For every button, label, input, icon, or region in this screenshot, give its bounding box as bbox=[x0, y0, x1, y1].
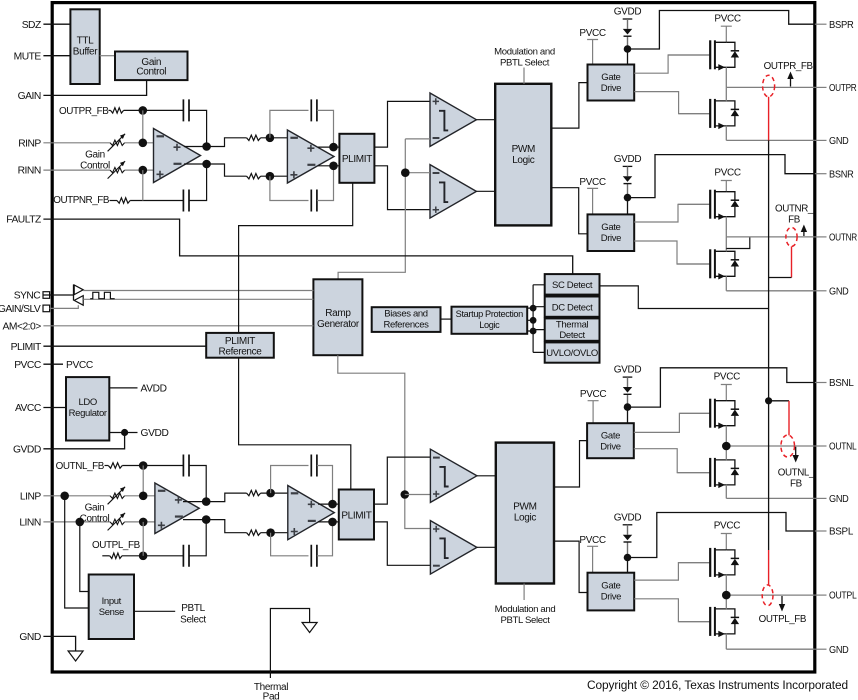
wire U3 out+ to stage2 bbox=[206, 493, 246, 502]
arrow OUTNR_FB bbox=[803, 229, 805, 236]
wire gate drive 1 high output bbox=[634, 55, 710, 73]
capacitor L-channel stage1 top feedback bbox=[183, 455, 189, 477]
wire comparator4 to PWM logic L bbox=[477, 546, 496, 548]
wire RINN node down to bottom feedback bbox=[142, 170, 144, 200]
wire biases to startup protection bbox=[441, 318, 452, 320]
wire PLIMIT-L to comparator3 - bbox=[374, 457, 430, 504]
wire gate drive 4 low output bbox=[634, 599, 710, 622]
svg-text:Gate: Gate bbox=[601, 581, 620, 592]
wire PWM R to gate drive 2 bbox=[551, 188, 587, 234]
arrow OUTNL_FB bbox=[795, 447, 797, 458]
svg-text:Detect: Detect bbox=[559, 330, 585, 341]
Gate Drive block 4 bbox=[588, 573, 635, 611]
transistor Q1 high-side OUTPR bbox=[668, 54, 710, 56]
capacitor R-channel stage2 top feedback bbox=[311, 99, 317, 121]
comparator L-channel positive bbox=[430, 449, 477, 502]
wire LINN input bbox=[43, 521, 110, 523]
wire U2 top feedback left bbox=[270, 110, 309, 137]
wire gate drive 2 low output bbox=[634, 241, 710, 264]
node ramp comparator junction L bbox=[401, 490, 410, 499]
svg-text:Modulation and: Modulation and bbox=[495, 604, 556, 615]
wire RINN to opamp bbox=[125, 169, 154, 171]
svg-text:PLIMIT: PLIMIT bbox=[11, 342, 42, 353]
svg-text:PVCC: PVCC bbox=[579, 535, 606, 546]
svg-text:OUTNR: OUTNR bbox=[829, 233, 857, 244]
transistor Q6 low-side OUTNL bbox=[677, 472, 710, 474]
svg-text:PBTL Select: PBTL Select bbox=[500, 58, 550, 69]
transistor Q5 high-side OUTNL bbox=[679, 412, 710, 414]
svg-text:GND: GND bbox=[829, 136, 849, 147]
wire U1 out- to R3 bbox=[207, 164, 247, 176]
Gate Drive block 2 bbox=[588, 214, 635, 251]
wire SC Detect to sense bus bbox=[600, 286, 769, 309]
wire U2 top feedback right bbox=[317, 110, 334, 147]
LDO Regulator block bbox=[66, 377, 109, 440]
wire GND rail 2 bbox=[726, 290, 815, 292]
transistor Q2 low-side OUTPR bbox=[679, 113, 711, 115]
wire Q6 source to GND bbox=[725, 485, 727, 499]
pin stub OUTNL bbox=[815, 445, 827, 447]
wire to L bottom feedback capacitor bbox=[122, 555, 183, 557]
svg-text:AVDD: AVDD bbox=[141, 384, 167, 395]
svg-text:References: References bbox=[383, 320, 429, 331]
wire L feedback node down to LINP node bbox=[142, 466, 144, 496]
svg-text:OUTNL_: OUTNL_ bbox=[778, 468, 815, 479]
svg-text:PLIMIT: PLIMIT bbox=[225, 336, 255, 347]
wire U3 out- to stage2 bbox=[206, 520, 246, 533]
svg-text:PWM: PWM bbox=[513, 502, 536, 513]
wire comparator2 to PWM logic bbox=[476, 190, 495, 192]
svg-text:Startup Protection: Startup Protection bbox=[456, 309, 523, 319]
Gain Control block bbox=[115, 52, 188, 81]
wire U4 out- to PLIMIT L bbox=[318, 521, 339, 523]
node U2 out- bbox=[329, 162, 338, 171]
svg-text:Logic: Logic bbox=[479, 320, 500, 330]
wire Q8 drain to OUTPL bbox=[725, 595, 727, 609]
SC Detect block bbox=[545, 274, 600, 295]
PWM Logic block R-channel bbox=[495, 84, 551, 226]
wire TTL Buffer to Gain Control bbox=[100, 55, 115, 57]
TTL Buffer block bbox=[70, 9, 99, 84]
Startup Protection Logic block bbox=[452, 307, 528, 334]
svg-text:UVLO/OVLO: UVLO/OVLO bbox=[546, 348, 598, 359]
svg-text:Sense: Sense bbox=[99, 607, 124, 618]
wire U4 bottom feedback left bbox=[271, 533, 309, 556]
svg-text:PBTL Select: PBTL Select bbox=[500, 615, 550, 626]
Thermal Detect block bbox=[545, 318, 600, 340]
svg-text:PVCC: PVCC bbox=[14, 360, 42, 371]
wire U4 bottom feedback right bbox=[317, 522, 333, 556]
wire PWM L to gate drive 4 bbox=[554, 541, 588, 592]
svg-text:Gate: Gate bbox=[601, 222, 620, 233]
wire red sense OUTNR bbox=[791, 246, 793, 277]
wire U4 top feedback right bbox=[317, 466, 333, 505]
wire RINN input bbox=[43, 169, 110, 171]
wire GND rail 4 bbox=[726, 648, 815, 650]
svg-text:PVCC: PVCC bbox=[580, 389, 607, 400]
wire gate drive 1 low output bbox=[634, 92, 710, 114]
wire LINP input bbox=[43, 495, 110, 497]
wire PWM R to gate drive 1 bbox=[551, 83, 587, 129]
UVLO/OVLO block bbox=[545, 342, 600, 362]
wire comparator3 to PWM logic L bbox=[477, 475, 496, 477]
wire U2 bottom feedback left bbox=[270, 176, 309, 200]
wire SYNC input bbox=[43, 294, 73, 296]
svg-text:BSNR: BSNR bbox=[829, 169, 854, 180]
wire U4 out+ to PLIMIT L bbox=[318, 503, 339, 505]
pin square SYNC bbox=[43, 292, 50, 299]
variable resistor RINN gain bbox=[110, 167, 125, 172]
wire U2 out- to PLIMIT bbox=[318, 165, 339, 167]
svg-text:OUTPL_FB: OUTPL_FB bbox=[759, 614, 807, 625]
wire bootstrap BSNR bbox=[628, 155, 815, 198]
svg-text:Logic: Logic bbox=[514, 513, 537, 524]
node detect junction 2 bbox=[530, 317, 537, 324]
node LINP tap bbox=[60, 492, 69, 501]
pin stub BSPR bbox=[815, 23, 827, 25]
node U1 out- bbox=[202, 160, 211, 169]
node ramp comparator junction R bbox=[401, 168, 410, 177]
svg-text:PVCC: PVCC bbox=[714, 521, 741, 532]
wire PLIMIT-R to comparator1 + bbox=[374, 101, 430, 147]
svg-text:Thermal: Thermal bbox=[556, 319, 589, 330]
wire feedback node down to RINP node bbox=[142, 110, 144, 142]
wire feedback to capacitor bbox=[143, 109, 184, 111]
wire OUTNR output bbox=[726, 236, 815, 238]
wire U1 output positive bbox=[184, 146, 207, 148]
wire Q4 drain step bbox=[726, 237, 750, 249]
transistor Q3 high-side OUTNR bbox=[678, 203, 710, 205]
svg-text:GND: GND bbox=[829, 645, 849, 656]
svg-text:Input: Input bbox=[102, 596, 122, 607]
wire red sense OUTPR bbox=[768, 97, 770, 141]
svg-text:OUTPR_FB: OUTPR_FB bbox=[59, 106, 109, 117]
svg-text:GAIN/SLV: GAIN/SLV bbox=[0, 304, 41, 315]
buffer SYNC output driver bbox=[73, 285, 75, 301]
wire LINP to opamp bbox=[125, 495, 155, 497]
ground symbol thermal pad bbox=[302, 623, 317, 633]
wire GVDD pin to LDO output bbox=[43, 433, 124, 449]
wire RINP input bbox=[43, 142, 110, 144]
comparator R-channel negative bbox=[430, 165, 476, 219]
svg-text:BSPR: BSPR bbox=[829, 20, 854, 31]
node OUTNL junction bbox=[722, 442, 731, 451]
wire OUTNL_FB lead bbox=[105, 465, 109, 467]
node U4 out- bbox=[328, 518, 337, 527]
wire to U4 - bbox=[261, 532, 288, 534]
variable resistor RINP gain bbox=[110, 140, 125, 145]
resistor L-channel stage2 bottom input bbox=[247, 530, 261, 535]
svg-text:OUTPR_FB: OUTPR_FB bbox=[764, 61, 814, 72]
svg-text:GVDD: GVDD bbox=[614, 512, 642, 523]
wire OUTPL output bbox=[726, 594, 815, 596]
DC Detect block bbox=[545, 297, 600, 317]
svg-text:GND: GND bbox=[829, 286, 849, 297]
comparator L-channel negative bbox=[430, 521, 477, 575]
svg-text:SYNC: SYNC bbox=[14, 291, 42, 302]
svg-text:TTL: TTL bbox=[77, 36, 95, 47]
pin stub GND bbox=[815, 497, 827, 499]
clock waveform glyph bbox=[90, 292, 115, 298]
variable resistor LINP gain bbox=[110, 493, 125, 498]
svg-text:AM<2:0>: AM<2:0> bbox=[3, 321, 42, 332]
wire U1 output negative bbox=[184, 163, 207, 165]
svg-text:Biases and: Biases and bbox=[384, 309, 428, 320]
node L bottom feedback junction bbox=[139, 552, 148, 561]
node detect junction 3 bbox=[530, 328, 537, 335]
svg-text:Control: Control bbox=[136, 66, 166, 77]
wire R2 to U2 bbox=[261, 137, 288, 139]
wire AVCC to LDO bbox=[43, 407, 66, 409]
wire red sense OUTNL bbox=[788, 401, 790, 436]
wire Q5 source to OUTNL bbox=[725, 426, 727, 446]
wire ramp to comparator1 - bbox=[405, 138, 430, 140]
wire input sense to PBTL select bbox=[134, 610, 175, 612]
wire U3 output positive bbox=[183, 501, 206, 503]
resistor R-channel stage2 top input bbox=[247, 135, 261, 140]
wire ramp output to L comparators bbox=[338, 355, 431, 528]
resistor OUTPL_FB feedback bbox=[110, 553, 122, 558]
svg-text:PVCC: PVCC bbox=[714, 372, 741, 383]
wire Q3 source to OUTNR bbox=[725, 217, 727, 237]
op-amp U3 L-channel input amplifier bbox=[155, 483, 199, 534]
svg-text:Copyright © 2016, Texas Instru: Copyright © 2016, Texas Instruments Inco… bbox=[587, 678, 848, 692]
svg-text:GVDD: GVDD bbox=[614, 7, 642, 18]
svg-text:Gain: Gain bbox=[85, 503, 105, 514]
wire GVDD to gate drive 2 bbox=[627, 198, 629, 215]
wire Q6 drain to OUTNL bbox=[725, 446, 727, 460]
wire MUTE to TTL Buffer bbox=[43, 55, 70, 57]
svg-text:Reference: Reference bbox=[219, 347, 263, 358]
svg-text:Generator: Generator bbox=[317, 319, 360, 330]
svg-text:GVDD: GVDD bbox=[614, 154, 642, 165]
svg-text:PBTL: PBTL bbox=[181, 603, 205, 614]
svg-text:OUTPL_FB: OUTPL_FB bbox=[92, 540, 141, 551]
sense ellipse OUTNR bbox=[786, 227, 797, 246]
svg-text:LDO: LDO bbox=[78, 397, 96, 408]
wire to bottom feedback capacitor bbox=[130, 200, 183, 202]
node U2 in- junction bbox=[266, 172, 275, 181]
svg-text:GVDD: GVDD bbox=[141, 428, 169, 439]
wire PLIMIT-R to comparator2 + bbox=[374, 166, 430, 210]
svg-text:OUTNR_: OUTNR_ bbox=[775, 204, 814, 215]
svg-text:RINP: RINP bbox=[18, 138, 41, 149]
node L top feedback junction bbox=[139, 461, 148, 470]
svg-text:LINP: LINP bbox=[20, 491, 42, 502]
svg-text:Drive: Drive bbox=[601, 592, 621, 603]
arrow OUTPR_FB bbox=[790, 76, 792, 87]
wire AM<2:0> to ramp generator bbox=[43, 325, 313, 327]
wire sense branch to OUTNL bbox=[769, 400, 789, 402]
svg-text:BSNL: BSNL bbox=[829, 378, 854, 389]
capacitor L-channel stage2 top feedback bbox=[311, 455, 317, 477]
svg-text:AVCC: AVCC bbox=[15, 403, 42, 414]
PLIMIT Reference block bbox=[206, 333, 274, 358]
PLIMIT block L-channel bbox=[339, 490, 374, 540]
wire red sense OUTPL bbox=[768, 550, 770, 585]
Gate Drive block 1 bbox=[588, 65, 635, 101]
svg-text:Drive: Drive bbox=[601, 233, 621, 244]
wire ramp output to R comparators bbox=[338, 139, 405, 279]
svg-text:Control: Control bbox=[80, 514, 110, 525]
node U2 out+ bbox=[329, 143, 338, 152]
wire to feedback node bbox=[124, 109, 143, 111]
PLIMIT block R-channel bbox=[339, 134, 374, 183]
wire GVDD to gate drive 4 bbox=[627, 558, 629, 573]
node GVDD junction bbox=[121, 429, 128, 436]
wire sense OUTNR to bus bbox=[769, 277, 792, 279]
node OUTPL junction bbox=[722, 591, 731, 600]
wire bootstrap BSPL bbox=[628, 513, 815, 558]
svg-text:GVDD: GVDD bbox=[13, 444, 41, 455]
wire Q4 drain to OUTNR bbox=[725, 237, 727, 251]
sense ellipse OUTPL bbox=[762, 585, 773, 606]
op-amp U4 L-channel second stage bbox=[288, 486, 335, 540]
wire ramp to comparator2 - bbox=[405, 172, 430, 174]
sense ellipse OUTPR bbox=[763, 75, 775, 97]
wire to L top feedback capacitor bbox=[122, 465, 183, 467]
wire SDZ to TTL Buffer bbox=[43, 23, 70, 25]
svg-text:FB: FB bbox=[790, 479, 803, 490]
svg-text:SC Detect: SC Detect bbox=[552, 280, 593, 291]
svg-text:Select: Select bbox=[180, 615, 206, 626]
wire U4 top feedback left bbox=[271, 466, 309, 494]
svg-text:PLIMIT: PLIMIT bbox=[342, 154, 372, 165]
capacitor L-channel stage1 bottom feedback bbox=[183, 545, 189, 567]
svg-text:Regulator: Regulator bbox=[69, 408, 107, 419]
wire OUTPL_FB lead bbox=[102, 555, 109, 557]
capacitor R-channel stage2 bottom feedback bbox=[311, 190, 317, 212]
node R1 top feedback junction bbox=[139, 106, 148, 115]
wire LDO AVDD output bbox=[109, 387, 137, 389]
svg-text:PVCC: PVCC bbox=[579, 28, 606, 39]
wire PWM L to modulation select label bbox=[523, 584, 525, 601]
wire Q2 drain to OUTPR bbox=[725, 87, 727, 101]
wire Q4 source to GND bbox=[725, 276, 727, 291]
svg-text:Buffer: Buffer bbox=[73, 47, 98, 58]
wire LDO GVDD output bbox=[109, 432, 137, 434]
transistor Q8 low-side OUTPL bbox=[678, 621, 710, 623]
resistor OUTPNR_FB feedback bbox=[117, 198, 130, 203]
node detect junction 1 bbox=[530, 305, 537, 312]
wire gate drive 3 low output bbox=[634, 449, 710, 473]
capacitor R-channel stage1 top feedback bbox=[183, 99, 189, 121]
wire SYNC buffer to ramp generator bbox=[83, 290, 313, 292]
wire ramp to comparator3 + bbox=[405, 494, 431, 496]
svg-text:Pad: Pad bbox=[263, 692, 280, 700]
wire Q2 source to GND bbox=[725, 126, 727, 140]
variable resistor LINN gain bbox=[110, 519, 125, 524]
wire GAIN to Gain Control bbox=[43, 80, 146, 95]
pin square GAIN/SLV bbox=[43, 305, 50, 312]
pin stub BSNR bbox=[815, 173, 827, 175]
svg-text:OUTNL: OUTNL bbox=[829, 442, 857, 453]
svg-text:OUTPNR_FB: OUTPNR_FB bbox=[53, 195, 110, 206]
ground symbol GND pin bbox=[68, 651, 83, 661]
svg-text:GND: GND bbox=[829, 494, 849, 505]
wire sense bus vertical bbox=[768, 140, 770, 550]
node U1 out+ bbox=[202, 142, 211, 151]
svg-text:OUTNL_FB: OUTNL_FB bbox=[56, 461, 105, 472]
svg-text:PVCC: PVCC bbox=[714, 168, 741, 179]
svg-text:SDZ: SDZ bbox=[22, 20, 41, 31]
wire comparator1 to PWM logic bbox=[476, 119, 495, 121]
svg-text:GAIN: GAIN bbox=[18, 91, 41, 102]
wire startup to detect stubs bbox=[527, 308, 533, 331]
comparator R-channel positive bbox=[430, 93, 476, 146]
wire LINP tap to input sense bbox=[65, 496, 89, 608]
svg-text:PVCC: PVCC bbox=[579, 177, 606, 188]
wire FAULTZ to SC Detect bbox=[43, 219, 572, 274]
wire U2 bottom feedback right bbox=[317, 166, 334, 201]
wire GND rail 1 bbox=[726, 139, 815, 141]
wire GVDD to gate drive 3 bbox=[627, 407, 629, 423]
node LINN junction bbox=[139, 518, 148, 527]
svg-text:PWM: PWM bbox=[512, 144, 535, 155]
wire PLIMIT pin to PLIMIT Reference bbox=[43, 345, 206, 347]
svg-text:OUTPR: OUTPR bbox=[829, 83, 857, 94]
wire gate drive 2 high output bbox=[634, 204, 710, 222]
svg-text:BSPL: BSPL bbox=[829, 527, 854, 538]
svg-text:LINN: LINN bbox=[19, 518, 41, 529]
svg-text:Gate: Gate bbox=[601, 431, 620, 442]
Biases and References block bbox=[372, 307, 441, 332]
wire Q1 source to OUTPR bbox=[725, 67, 727, 87]
wire detect stack bus bbox=[533, 285, 545, 353]
op-amp U2 R-channel second stage bbox=[287, 130, 334, 183]
wire capacitor to opamp neg output L bbox=[189, 520, 206, 556]
wire PVCC pin stub bbox=[43, 363, 63, 365]
node U4 in- junction bbox=[266, 528, 275, 537]
PWM Logic block L-channel bbox=[496, 443, 554, 584]
svg-text:Drive: Drive bbox=[601, 83, 621, 94]
wire capacitor to opamp output L bbox=[189, 466, 206, 502]
svg-text:Gain: Gain bbox=[85, 149, 105, 160]
node U4 out+ bbox=[328, 500, 337, 509]
capacitor L-channel stage2 bottom feedback bbox=[311, 545, 317, 567]
svg-text:PLIMIT: PLIMIT bbox=[341, 511, 371, 522]
Gate Drive block 3 bbox=[587, 423, 634, 458]
wire thermal pad to ground bbox=[270, 609, 309, 679]
buffer SYNC input driver bbox=[74, 296, 83, 306]
Ramp Generator block bbox=[313, 279, 362, 355]
wire OUTNL output bbox=[726, 445, 815, 447]
svg-text:Control: Control bbox=[80, 160, 110, 171]
wire GND pin to ground bbox=[43, 636, 75, 651]
resistor R-channel stage2 bottom input bbox=[247, 174, 261, 179]
wire PLIMIT Reference to PLIMIT L bbox=[239, 358, 351, 490]
arrow OUTPL_FB bbox=[781, 596, 783, 607]
pin stub GND bbox=[815, 139, 827, 141]
resistor OUTPR_FB feedback bbox=[111, 108, 124, 113]
svg-text:DC Detect: DC Detect bbox=[552, 302, 593, 313]
wire OUTPR output bbox=[726, 86, 815, 88]
wire modulation select to PWM R bbox=[523, 68, 525, 84]
node U4 in+ junction bbox=[266, 489, 275, 498]
op-amp U1 R-channel input amplifier bbox=[154, 129, 201, 183]
svg-text:FAULTZ: FAULTZ bbox=[6, 215, 41, 226]
svg-text:RINN: RINN bbox=[18, 166, 41, 177]
transistor Q7 high-side OUTPL bbox=[678, 562, 710, 564]
wire PWM L to gate drive 3 bbox=[554, 441, 587, 487]
wire Q8 source to GND bbox=[725, 634, 727, 649]
wire GAIN/SLV to sync buffer bbox=[50, 305, 79, 308]
node RINN junction bbox=[139, 166, 148, 175]
pin stub GND bbox=[815, 648, 827, 650]
svg-text:Modulation and: Modulation and bbox=[494, 47, 555, 58]
pin stub OUTPR bbox=[815, 86, 827, 88]
wire RINP to opamp bbox=[125, 142, 154, 144]
